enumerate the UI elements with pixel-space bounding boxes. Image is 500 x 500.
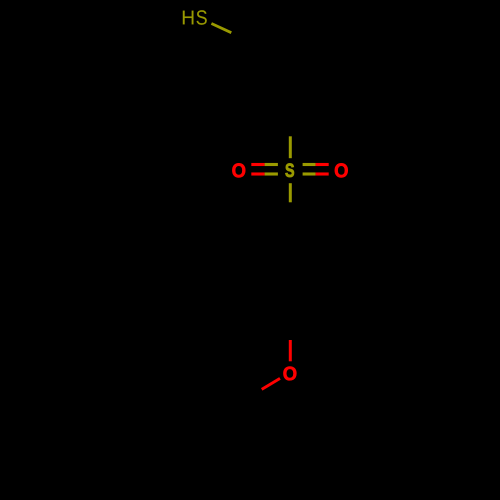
- sulfonyl S label: [285, 164, 294, 177]
- wire: bond HS-C1 (sulfur half): [211, 24, 231, 33]
- ether O label: [283, 367, 296, 381]
- thiol S label: [197, 10, 207, 25]
- wire: S=O right double bond line 2: [303, 172, 316, 175]
- wire: S=O left double bond line 2: [251, 172, 264, 175]
- right O label of S=O: [335, 163, 348, 177]
- left O label of S=O: [232, 163, 245, 177]
- wire: bond C2-S sulfonyl (sulfur half, vertical above S): [289, 136, 292, 158]
- wire: bond O-CH3 (oxygen half, diagonal to lower left): [262, 378, 280, 389]
- wire: bond S-C3 ring (sulfur half, vertical below S): [289, 183, 292, 202]
- wire: S=O right double bond line 1 (olive S-half, red O-half): [303, 163, 316, 166]
- thiol H label: [183, 11, 194, 25]
- wire: bond C6-O (oxygen half, vertical above bottom O): [289, 340, 292, 361]
- wire: S=O left double bond line 1 (red O-half, olive S-half): [251, 163, 264, 166]
